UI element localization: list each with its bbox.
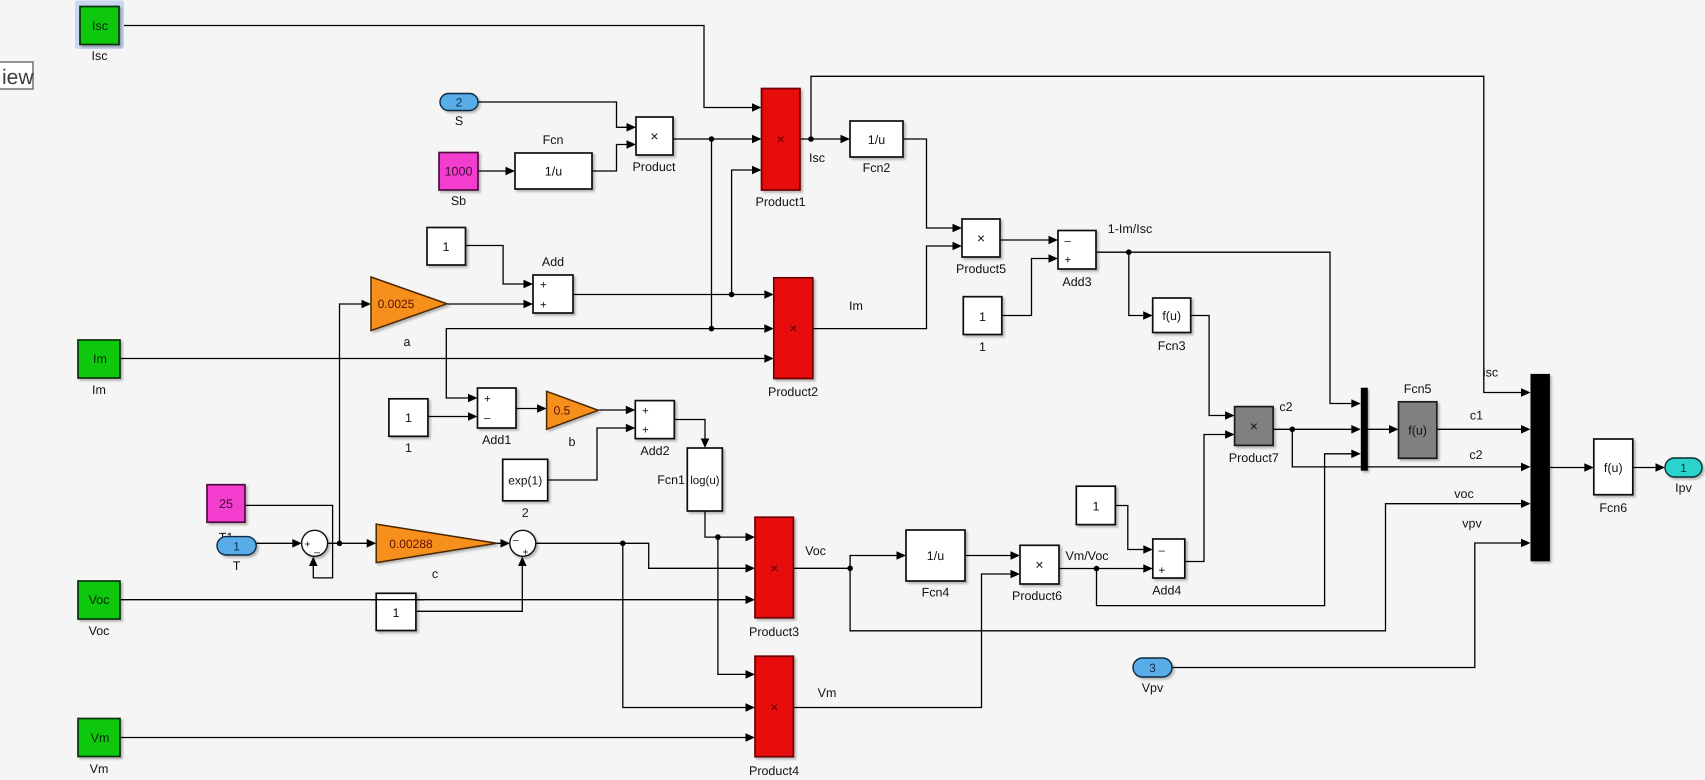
svg-text:–: – — [314, 547, 320, 559]
input block Isc (green) — [80, 7, 119, 45]
wire node (717.9,537.1) down to Product4 input 1 — [718, 537, 755, 679]
label Fcn6 — [1599, 501, 1627, 515]
svg-text:Add: Add — [542, 255, 564, 269]
svg-text:Fcn6: Fcn6 — [1599, 501, 1627, 515]
constant Sb magenta 1000 — [439, 153, 478, 191]
label Fcn5 above — [1404, 382, 1432, 396]
svg-text:–: – — [1159, 545, 1166, 557]
inport oval T value 1 — [217, 537, 256, 555]
block Add4 (minus plus) — [1153, 539, 1185, 578]
wire small mux output to Fcn5 input — [1368, 425, 1399, 434]
svg-text:Add3: Add3 — [1062, 275, 1091, 289]
wire Product6 output to Add4 plus input, node at (1096.5,568.5) — [1059, 564, 1153, 573]
signal label Vm — [818, 686, 837, 700]
svg-text:Product3: Product3 — [749, 625, 799, 639]
label Add4 — [1152, 584, 1181, 598]
wire Im input port to Product2 input 3 — [120, 354, 774, 363]
svg-text:3: 3 — [1149, 661, 1156, 675]
signal label c2 near Product7 — [1279, 400, 1292, 414]
label 2 — [522, 506, 529, 520]
svg-text:2: 2 — [456, 96, 463, 110]
svg-text:+: + — [1159, 565, 1166, 577]
constant 1 (for Add4) — [1076, 486, 1115, 524]
label Im — [92, 383, 106, 397]
wire node (850.1,568.3) down and around to big mux voc input — [850, 499, 1530, 630]
svg-text:0.00288: 0.00288 — [389, 537, 433, 551]
label Fcn above — [543, 133, 564, 147]
label Voc — [89, 624, 110, 638]
block Fcn5 f(u) gray — [1399, 402, 1437, 459]
wire Fcn1 log output to Product3 input 1, node at (717.9,537.1) — [705, 511, 755, 542]
wire sum2 output to Product3 input 2, node at (622.8,543.3) — [536, 541, 755, 573]
wire S constant to Product input 1 — [478, 102, 636, 132]
block Fcn6 f(u) — [1594, 439, 1633, 495]
small mux bar — [1361, 388, 1368, 471]
wire Add2 output down into Fcn1 log block — [675, 420, 710, 449]
label a — [404, 335, 411, 349]
block Fcn1 log(u) — [687, 448, 722, 511]
wire node (711.5,328.6) left/down to Add1 input 1 — [446, 329, 711, 403]
gain a triangle 0.0025 — [371, 277, 447, 331]
svg-text:–: – — [513, 534, 519, 546]
svg-text:Fcn1: Fcn1 — [657, 473, 685, 487]
wire Add3 output to small mux input 1, node at (1128.8,252.2) — [1096, 249, 1361, 407]
svg-text:Im: Im — [92, 383, 106, 397]
block Fcn2 1/u — [850, 121, 903, 157]
svg-text:1: 1 — [393, 606, 400, 620]
block Fcn3 f(u) — [1153, 298, 1191, 333]
label T — [233, 559, 241, 573]
svg-text:1: 1 — [233, 540, 240, 554]
block Product3 (red) — [755, 517, 793, 618]
svg-text:2: 2 — [522, 506, 529, 520]
svg-text:Product: Product — [632, 160, 676, 174]
svg-text:Add4: Add4 — [1152, 584, 1181, 598]
wire T1 constant 25 around to sum1 minus input — [245, 505, 333, 578]
block Add2 (plus plus) — [635, 401, 674, 439]
svg-text:1/u: 1/u — [545, 165, 562, 179]
svg-text:Product6: Product6 — [1012, 589, 1062, 603]
svg-text:×: × — [1250, 418, 1258, 434]
svg-text:Im: Im — [93, 352, 107, 366]
svg-text:voc: voc — [1454, 487, 1473, 501]
svg-text:Fcn: Fcn — [543, 133, 564, 147]
label Add above — [542, 255, 564, 269]
selection highlight around Isc block — [76, 1, 124, 49]
block Add1 (plus minus) — [478, 388, 517, 428]
svg-text:+: + — [540, 300, 547, 312]
wire node (622.8,543.3) down to Product4 input 2 — [623, 543, 755, 712]
wire node (811,139) up along top to big mux isc input — [811, 76, 1531, 397]
svg-text:+: + — [304, 539, 310, 551]
input block Voc (green) — [78, 581, 120, 619]
svg-text:–: – — [1065, 236, 1072, 248]
inport oval S value 2 — [440, 94, 478, 111]
signal label Im — [849, 299, 863, 313]
label Sb — [451, 194, 466, 208]
signal label 1-Im/Isc — [1108, 222, 1152, 236]
block Fcn4 1/u — [906, 530, 965, 581]
inport oval Vpv value 3 — [1133, 658, 1172, 677]
svg-text:25: 25 — [219, 497, 233, 511]
svg-text:Sb: Sb — [451, 194, 466, 208]
svg-text:f(u): f(u) — [1604, 461, 1623, 475]
svg-text:0.5: 0.5 — [554, 404, 571, 418]
constant exp(1) — [503, 459, 548, 501]
svg-text:Add2: Add2 — [640, 444, 669, 458]
label Add3 — [1062, 275, 1091, 289]
svg-text:c: c — [432, 567, 438, 581]
wire Product2 output up to Product5 input 2 — [813, 242, 962, 329]
wire Product1 output to Fcn2, node at (811,139) — [800, 135, 850, 144]
wire Product output to Product1 input 2, node at (711.5,139) — [673, 135, 762, 144]
signal label Vm/Voc — [1065, 549, 1108, 563]
wire gain b output to Add2 input 1 — [598, 406, 635, 415]
svg-text:1: 1 — [1093, 500, 1100, 514]
gain b triangle 0.5 — [547, 391, 599, 429]
wire constant 1 to Add4 minus input — [1115, 506, 1152, 554]
block Fcn 1/u — [515, 153, 592, 189]
svg-text:vpv: vpv — [1462, 517, 1482, 531]
svg-text:T: T — [233, 559, 241, 573]
svg-text:Product4: Product4 — [749, 764, 799, 778]
label Fcn2 — [863, 161, 891, 175]
svg-text:Isc: Isc — [92, 49, 108, 63]
label Product1 — [755, 195, 805, 209]
block Product4 (red) — [755, 656, 793, 757]
svg-text:+: + — [1065, 255, 1072, 267]
svg-text:Vpv: Vpv — [1142, 681, 1164, 695]
svg-text:+: + — [642, 425, 649, 437]
block Add3 (minus plus) — [1058, 231, 1096, 270]
constant 1 (for sum2) — [376, 593, 416, 630]
wire segment Voc crossing over constant block — [370, 599, 424, 601]
svg-text:1/u: 1/u — [927, 549, 944, 563]
svg-text:Product7: Product7 — [1229, 451, 1279, 465]
input block Im (green) — [78, 340, 120, 378]
svg-text:c1: c1 — [1470, 409, 1483, 423]
svg-text:Voc: Voc — [805, 544, 826, 558]
block Product2 (red) — [774, 278, 813, 379]
signal label c1 — [1470, 409, 1483, 423]
wire Vm input port to Product4 input 3 — [120, 733, 755, 742]
label b — [569, 435, 576, 449]
svg-text:×: × — [1035, 557, 1043, 573]
sum1 circle plus minus — [302, 530, 328, 558]
label Product6 — [1012, 589, 1062, 603]
label Product3 — [749, 625, 799, 639]
svg-text:1000: 1000 — [445, 165, 473, 179]
svg-text:log(u): log(u) — [690, 475, 720, 487]
wire Isc input port to Product1 input 1 — [119, 26, 762, 112]
svg-text:1: 1 — [405, 411, 412, 425]
svg-text:Vm: Vm — [91, 731, 110, 745]
constant 1 (for Add1) — [389, 399, 428, 437]
gain c triangle 0.00288 — [376, 524, 497, 563]
label Product2 — [768, 385, 818, 399]
svg-text:1: 1 — [1680, 461, 1687, 475]
block Product (x) — [636, 117, 673, 155]
svg-text:a: a — [404, 335, 411, 349]
svg-text:×: × — [977, 230, 985, 246]
svg-text:Product2: Product2 — [768, 385, 818, 399]
block Product7 (gray) — [1235, 407, 1274, 446]
wire Fcn5 output to big mux c1 input — [1437, 425, 1531, 434]
wire constant 1 to Add1 input 2 — [428, 412, 477, 421]
label Product5 — [956, 262, 1006, 276]
svg-text:Vm: Vm — [818, 686, 837, 700]
svg-text:c2: c2 — [1469, 448, 1482, 462]
wire big mux output to Fcn6 input — [1550, 463, 1594, 472]
svg-text:×: × — [770, 699, 778, 715]
constant 1 (for Add3) — [963, 297, 1002, 335]
svg-text:exp(1): exp(1) — [508, 474, 542, 488]
wire constant 1 up to sum2 plus input — [416, 557, 527, 612]
svg-text:×: × — [789, 320, 797, 336]
svg-text:1: 1 — [405, 441, 412, 455]
wire node (1292.3,429.3) down to big mux c2 input — [1292, 429, 1530, 471]
wire node (711.5,139) down to Product2 input 2, node at (711.5,328.6) — [709, 139, 774, 333]
label Vpv — [1142, 681, 1164, 695]
svg-text:iew: iew — [2, 66, 34, 89]
svg-text:1: 1 — [443, 240, 450, 254]
svg-text:Product5: Product5 — [956, 262, 1006, 276]
label Add2 — [640, 444, 669, 458]
signal label Isc — [809, 151, 825, 165]
svg-text:Im: Im — [849, 299, 863, 313]
signal label c2 near big mux — [1469, 448, 1482, 462]
label Ipv — [1675, 481, 1692, 495]
svg-text:Vm: Vm — [90, 762, 109, 776]
svg-text:S: S — [455, 114, 463, 128]
block Product6 (x) — [1020, 545, 1059, 584]
svg-text:isc: isc — [1483, 366, 1498, 380]
svg-text:1-Im/Isc: 1-Im/Isc — [1108, 222, 1152, 236]
constant 1 (for Add) — [427, 228, 466, 266]
label S — [455, 114, 463, 128]
big mux bar — [1531, 374, 1550, 561]
label 1 — [979, 340, 986, 354]
sum2 circle minus plus — [510, 530, 536, 558]
label Isc — [92, 49, 108, 63]
label Product4 — [749, 764, 799, 778]
svg-text:Fcn2: Fcn2 — [863, 161, 891, 175]
block Product1 (red) — [762, 89, 801, 191]
svg-text:Fcn3: Fcn3 — [1158, 339, 1186, 353]
svg-text:+: + — [484, 394, 491, 406]
wire T input port to sum1 plus input — [256, 539, 302, 548]
partial View button top-left — [0, 62, 34, 89]
label Fcn4 — [922, 586, 950, 600]
svg-text:0.0025: 0.0025 — [378, 297, 415, 311]
wire Fcn output to Product input 2 — [592, 140, 636, 171]
svg-text:+: + — [522, 547, 528, 559]
svg-text:Voc: Voc — [89, 624, 110, 638]
wire node (731.6,294.5) up to Product1 input 3 — [732, 166, 762, 295]
wire sum node up to gain a input — [340, 300, 372, 544]
svg-text:×: × — [650, 128, 658, 144]
wire Add4 output up to Product7 input 2 — [1185, 430, 1235, 561]
svg-text:f(u): f(u) — [1408, 424, 1427, 438]
svg-text:c2: c2 — [1279, 400, 1292, 414]
wire Fcn2 output down to Product5 input 1 — [903, 139, 962, 232]
svg-text:Isc: Isc — [92, 19, 108, 33]
block Product5 (x) — [962, 219, 1000, 257]
input block Vm (green) — [78, 719, 120, 757]
wire gain a output to Add input 2 — [447, 300, 533, 309]
svg-text:–: – — [484, 413, 491, 425]
svg-text:+: + — [642, 406, 649, 418]
label c — [432, 567, 438, 581]
wire gain c output to sum2 minus input — [497, 539, 510, 548]
label Fcn3 — [1158, 339, 1186, 353]
svg-text:×: × — [770, 560, 778, 576]
svg-text:f(u): f(u) — [1162, 309, 1181, 323]
svg-text:b: b — [569, 435, 576, 449]
svg-text:Vm/Voc: Vm/Voc — [1065, 549, 1108, 563]
signal label isc — [1483, 366, 1498, 380]
svg-text:Voc: Voc — [89, 593, 110, 607]
wire Fcn6 output to Ipv output port — [1633, 463, 1665, 472]
svg-text:Add1: Add1 — [482, 433, 511, 447]
wire Product5 output to Add3 input 1 — [1000, 236, 1058, 245]
label Product7 — [1229, 451, 1279, 465]
constant T1 magenta 25 — [207, 485, 245, 523]
svg-text:Ipv: Ipv — [1675, 481, 1692, 495]
wire node (1096.5,568.5) down and around up to small mux input 3 — [1097, 450, 1361, 606]
svg-text:×: × — [777, 131, 785, 147]
label T1 partially hidden — [219, 531, 234, 545]
signal label Voc — [805, 544, 826, 558]
svg-text:Isc: Isc — [809, 151, 825, 165]
svg-text:1: 1 — [979, 310, 986, 324]
wire constant 1 to Add input 1 — [465, 246, 533, 289]
label Product — [632, 160, 676, 174]
svg-text:1: 1 — [979, 340, 986, 354]
wire Fcn3 output down to Product7 input 1 — [1191, 316, 1235, 420]
wire exp(1) constant to Add2 input 2 — [548, 424, 636, 480]
wire Product4 output up to Product6 input 2 — [793, 570, 1020, 708]
svg-text:+: + — [540, 280, 547, 292]
wire Add1 output to gain b input — [516, 404, 547, 413]
wire Add output to Product2 input 1, node at (731.6,294.5) — [573, 290, 774, 299]
block Add (plus plus) — [533, 275, 573, 313]
label Vm — [90, 762, 109, 776]
svg-text:Fcn4: Fcn4 — [922, 586, 950, 600]
wire Voc input port to Product3 input 3 — [119, 595, 755, 604]
svg-text:Product1: Product1 — [755, 195, 805, 209]
wire Product7 output to small mux input 2, node at (1292.3,429.3) — [1273, 425, 1361, 434]
label Add1 — [482, 433, 511, 447]
wire sum1 output to gain c input, node at (339.5,543.3) — [328, 539, 377, 548]
wire Product3 output to Fcn4, node at (850.1,568.3) — [793, 551, 906, 571]
wire Vpv input port up to big mux vpv input — [1172, 539, 1531, 668]
label 1 — [405, 441, 412, 455]
signal label vpv — [1462, 517, 1482, 531]
wire Sb constant to Fcn — [478, 167, 515, 176]
wire constant 1 to Add3 input 2 — [1002, 254, 1058, 315]
outport oval Ipv value 1 — [1665, 458, 1702, 477]
wire node (1128.8,252.2) down to Fcn3 input — [1129, 252, 1153, 320]
svg-text:Fcn5: Fcn5 — [1404, 382, 1432, 396]
signal label voc — [1454, 487, 1473, 501]
label Fcn1 left — [657, 473, 685, 487]
svg-text:1/u: 1/u — [868, 133, 885, 147]
wire Fcn4 output to Product6 input 1 — [965, 551, 1020, 560]
